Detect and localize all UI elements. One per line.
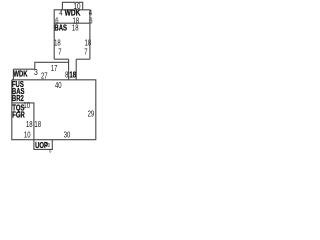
BAS left edge: [53, 23, 55, 59]
svg-text:3: 3: [34, 67, 38, 77]
BAS bottom line: [54, 58, 68, 60]
WDK deck box top: [54, 10, 90, 23]
svg-text:18: 18: [72, 22, 79, 32]
svg-text:6: 6: [49, 148, 52, 154]
svg-text:29: 29: [88, 108, 95, 118]
svg-text:18: 18: [34, 119, 41, 129]
divider 8|18: [68, 59, 70, 80]
svg-text:30: 30: [64, 129, 71, 139]
17-step top line: [35, 62, 69, 69]
svg-text:FGR: FGR: [12, 109, 25, 119]
svg-text:WDK: WDK: [13, 68, 28, 78]
divider right of 18: [75, 59, 77, 80]
svg-text:18: 18: [69, 69, 76, 79]
UOP porch box: [34, 140, 52, 150]
WDK strip top line: [13, 68, 34, 70]
porch box 10x4 at top: [62, 2, 82, 10]
TQS top line: [12, 102, 35, 104]
svg-text:27: 27: [41, 70, 48, 80]
svg-text:17: 17: [51, 63, 58, 73]
svg-text:7: 7: [58, 46, 61, 56]
svg-text:40: 40: [55, 80, 62, 90]
svg-text:7: 7: [84, 46, 87, 56]
svg-text:8: 8: [65, 69, 68, 79]
WDK strip left edge: [12, 69, 14, 80]
svg-text:18: 18: [26, 119, 33, 129]
TQS right edge: [33, 103, 35, 140]
svg-text:10: 10: [24, 129, 31, 139]
svg-text:4: 4: [59, 7, 62, 17]
BAS bottom right segment: [76, 58, 90, 60]
BAS top line: [54, 22, 90, 24]
svg-text:BAS: BAS: [54, 22, 67, 32]
main block outline with top line: [12, 80, 96, 140]
right edge of WDK+BAS: [89, 10, 91, 59]
svg-text:6: 6: [89, 15, 92, 25]
